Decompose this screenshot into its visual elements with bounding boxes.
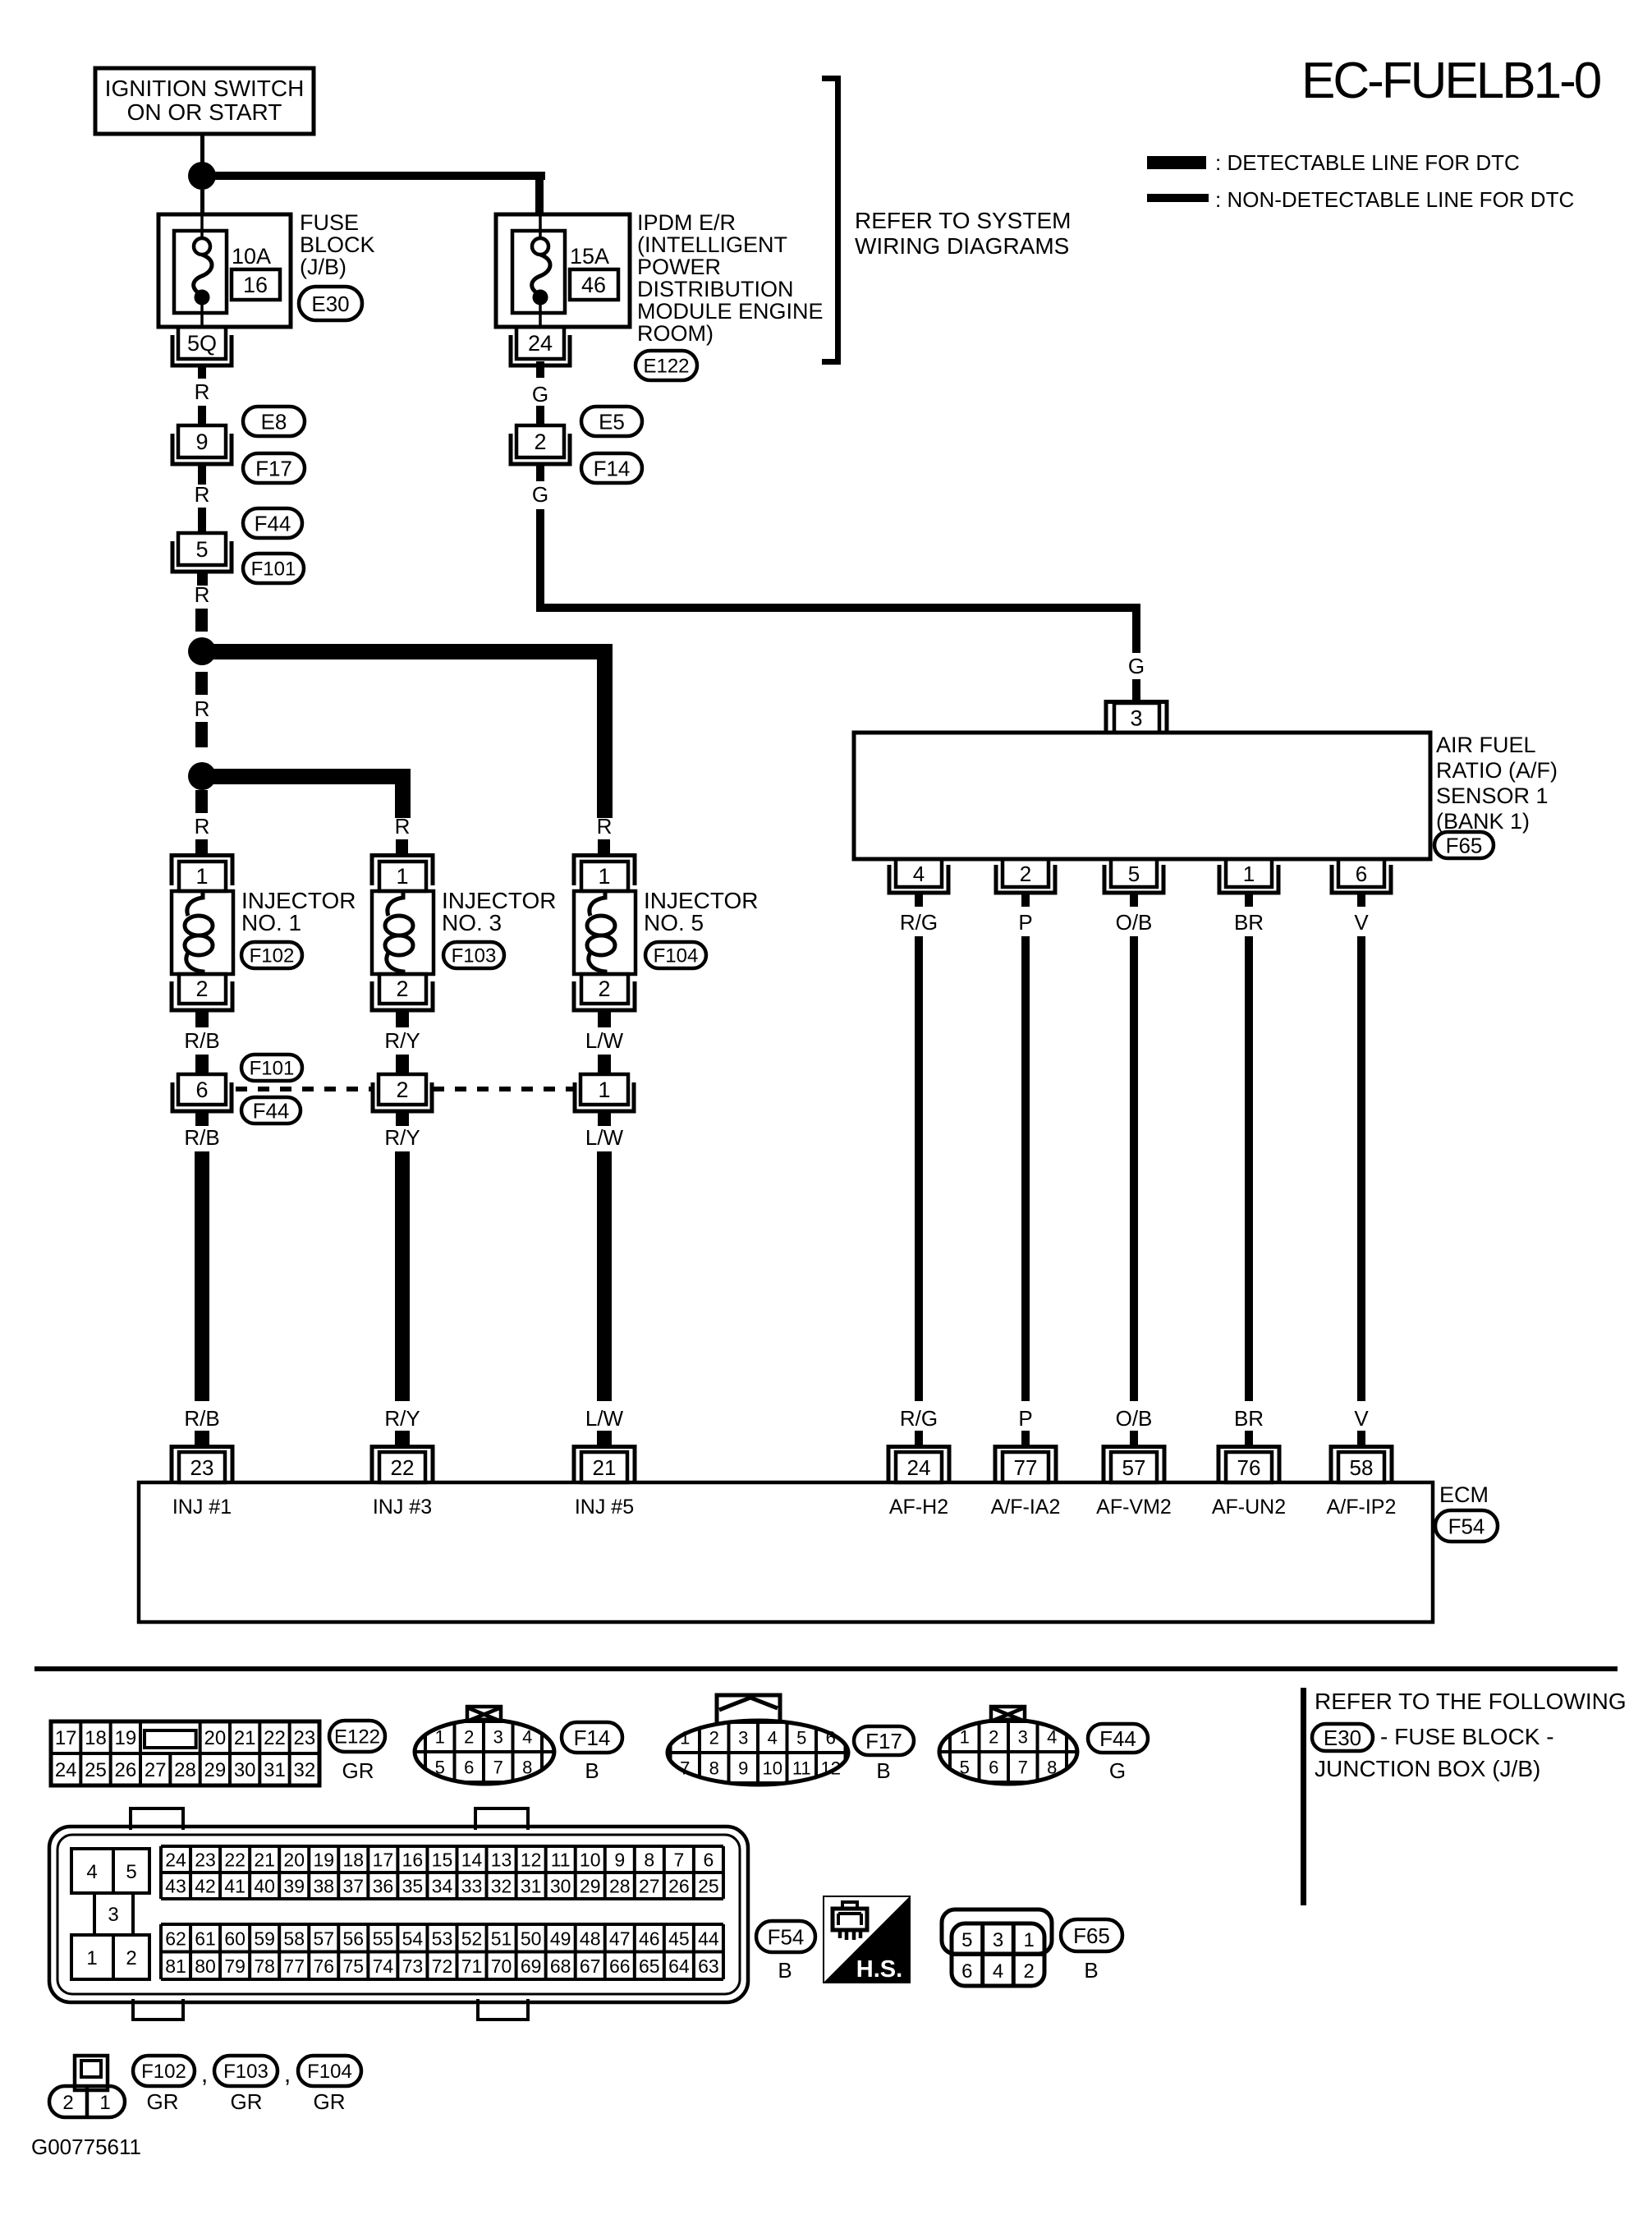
svg-text:2: 2 — [709, 1728, 719, 1749]
wire — [396, 1111, 409, 1126]
wire — [598, 1011, 611, 1027]
svg-text:3: 3 — [1130, 706, 1142, 731]
wire junction2 to injector3 — [212, 769, 411, 784]
wire G 24 to E5 — [536, 361, 544, 378]
svg-text:F103: F103 — [452, 945, 497, 967]
svg-text:ROOM): ROOM) — [637, 321, 714, 346]
svg-text:7: 7 — [673, 1850, 684, 1871]
junction node 2 — [188, 762, 216, 790]
svg-text:54: 54 — [402, 1928, 424, 1949]
svg-text:R/G: R/G — [900, 1406, 938, 1431]
svg-text:R: R — [195, 482, 210, 507]
svg-text:R/G: R/G — [900, 910, 938, 935]
wire — [395, 1431, 410, 1446]
svg-text:8: 8 — [709, 1758, 719, 1779]
bracket refer to system wiring diagrams — [822, 79, 1071, 362]
A/F sensor terminal 4 — [889, 859, 948, 893]
svg-text:H.S.: H.S. — [856, 1956, 902, 1983]
svg-text:15: 15 — [432, 1850, 453, 1871]
svg-text:AF-H2: AF-H2 — [889, 1496, 948, 1519]
svg-text:2: 2 — [126, 1947, 136, 1969]
svg-text:5: 5 — [961, 1929, 972, 1951]
svg-text:JUNCTION BOX (J/B): JUNCTION BOX (J/B) — [1315, 1756, 1540, 1781]
svg-text:31: 31 — [521, 1876, 542, 1897]
svg-text:48: 48 — [580, 1928, 601, 1949]
svg-text:66: 66 — [609, 1955, 631, 1977]
svg-text:G00775611: G00775611 — [31, 2135, 141, 2159]
svg-text:1: 1 — [598, 1078, 610, 1102]
connector F101 — [241, 1055, 302, 1081]
wire — [598, 1111, 611, 1126]
svg-text:6: 6 — [961, 1960, 972, 1983]
wire ignition to junction — [200, 134, 204, 163]
svg-text:55: 55 — [373, 1928, 394, 1949]
svg-text:42: 42 — [195, 1876, 216, 1897]
svg-text:72: 72 — [432, 1955, 453, 1977]
svg-text:2: 2 — [598, 977, 610, 1001]
svg-text:73: 73 — [402, 1955, 424, 1977]
svg-text:- FUSE BLOCK -: - FUSE BLOCK - — [1380, 1724, 1554, 1749]
H.S. mark — [824, 1896, 910, 1983]
svg-text:F101: F101 — [251, 558, 296, 581]
svg-text:6: 6 — [826, 1728, 836, 1749]
svg-text:F17: F17 — [255, 456, 292, 480]
separator line — [34, 1666, 1618, 1671]
svg-text:E30: E30 — [1324, 1726, 1361, 1750]
svg-text:49: 49 — [550, 1928, 571, 1949]
svg-text:70: 70 — [491, 1955, 512, 1977]
svg-text:L/W: L/W — [585, 1125, 624, 1150]
svg-text:52: 52 — [461, 1928, 483, 1949]
wire G long to A/F sensor — [536, 509, 544, 612]
svg-text:29: 29 — [204, 1759, 226, 1781]
wire — [195, 1011, 209, 1027]
wire R/G long to ECM — [915, 936, 923, 1401]
svg-text:SENSOR 1: SENSOR 1 — [1436, 784, 1549, 808]
svg-text:11: 11 — [792, 1758, 811, 1779]
wire R to injector1 — [195, 790, 208, 813]
svg-text:NO. 5: NO. 5 — [644, 910, 704, 935]
svg-text:5: 5 — [435, 1758, 445, 1778]
svg-text:12: 12 — [821, 1758, 841, 1779]
air fuel ratio sensor 1 box — [854, 733, 1430, 859]
svg-text:28: 28 — [609, 1876, 631, 1897]
svg-text:24: 24 — [55, 1759, 77, 1781]
connector F44 — [243, 508, 302, 538]
svg-text:69: 69 — [521, 1955, 542, 1977]
svg-text:63: 63 — [698, 1955, 719, 1977]
svg-text:8: 8 — [1047, 1758, 1057, 1778]
terminal 5Q — [172, 327, 232, 365]
wire — [1357, 1431, 1365, 1446]
svg-text:REFER TO THE FOLLOWING: REFER TO THE FOLLOWING — [1315, 1689, 1627, 1714]
svg-text:51: 51 — [491, 1928, 512, 1949]
wire R/B long to ECM — [195, 1151, 209, 1401]
svg-text:79: 79 — [224, 1955, 246, 1977]
connector F54 — [756, 1921, 815, 1952]
svg-text:77: 77 — [283, 1955, 305, 1977]
wire — [915, 1431, 923, 1446]
connector face F54 (ECM) — [49, 1808, 748, 2020]
connector F104 — [645, 942, 706, 968]
svg-text:5Q: 5Q — [187, 331, 217, 356]
svg-text:1: 1 — [960, 1727, 970, 1748]
wire O/B long to ECM — [1130, 936, 1138, 1401]
svg-text:FUSE: FUSE — [300, 210, 359, 235]
svg-text:40: 40 — [254, 1876, 275, 1897]
title EC-FUELB1-0 — [1301, 53, 1601, 109]
svg-text:53: 53 — [432, 1928, 453, 1949]
svg-text:E30: E30 — [311, 292, 349, 316]
connector F65 — [1434, 832, 1494, 858]
svg-text:AF-VM2: AF-VM2 — [1096, 1496, 1172, 1519]
svg-text:44: 44 — [698, 1928, 719, 1949]
svg-text:26: 26 — [114, 1759, 136, 1781]
svg-text:27: 27 — [145, 1759, 167, 1781]
svg-text:EC-FUELB1-0: EC-FUELB1-0 — [1301, 53, 1601, 109]
connector F103 — [443, 942, 504, 968]
svg-text:AIR FUEL: AIR FUEL — [1436, 733, 1536, 757]
connector F54 — [1435, 1510, 1498, 1542]
wire junction to IPDM — [212, 172, 545, 180]
svg-text:IPDM E/R: IPDM E/R — [637, 210, 736, 235]
svg-text:10: 10 — [580, 1850, 601, 1871]
wire — [195, 1431, 209, 1446]
svg-text:32: 32 — [491, 1876, 512, 1897]
svg-text:3: 3 — [493, 1727, 503, 1748]
svg-text:A/F-IA2: A/F-IA2 — [991, 1496, 1061, 1519]
svg-text:BR: BR — [1234, 910, 1264, 935]
wire — [915, 894, 923, 907]
svg-text:2: 2 — [464, 1727, 474, 1748]
svg-text:1: 1 — [1024, 1929, 1035, 1951]
svg-text:13: 13 — [491, 1850, 512, 1871]
wire R 5 to junction 1 — [197, 571, 208, 586]
svg-text:60: 60 — [224, 1928, 246, 1949]
svg-text:(J/B): (J/B) — [300, 255, 346, 279]
svg-text:43: 43 — [165, 1876, 186, 1897]
wire — [1245, 894, 1253, 907]
label FUSE BLOCK (J/B) — [300, 210, 375, 279]
label AIR FUEL RATIO (A/F) SENSOR 1 (BANK 1) — [1436, 733, 1558, 834]
svg-text:23: 23 — [293, 1727, 315, 1749]
A/F sensor terminal 6 — [1332, 859, 1391, 893]
svg-text:25: 25 — [85, 1759, 107, 1781]
svg-text:R: R — [195, 582, 210, 607]
ECM box — [139, 1482, 1433, 1622]
svg-text:F54: F54 — [1448, 1514, 1485, 1538]
svg-text:1: 1 — [1243, 862, 1255, 886]
connector E5/F14 terminal 2 — [511, 425, 570, 464]
svg-text:4: 4 — [993, 1960, 1003, 1983]
ECM terminal 77 — [995, 1447, 1056, 1483]
svg-text:22: 22 — [224, 1850, 246, 1871]
svg-text:G: G — [1109, 1758, 1126, 1783]
svg-text:F102: F102 — [250, 945, 295, 967]
svg-text:F102: F102 — [141, 2061, 186, 2083]
svg-text:F65: F65 — [1446, 833, 1483, 857]
svg-text:22: 22 — [264, 1727, 286, 1749]
svg-text:E122: E122 — [334, 1726, 380, 1749]
svg-text:F54: F54 — [768, 1924, 805, 1949]
svg-text:36: 36 — [373, 1876, 394, 1897]
svg-text:G: G — [532, 382, 548, 407]
A/F sensor terminal 1 — [1219, 859, 1278, 893]
svg-text:B: B — [1084, 1958, 1098, 1983]
svg-text:3: 3 — [108, 1904, 118, 1926]
svg-text:14: 14 — [461, 1850, 483, 1871]
svg-text:POWER: POWER — [637, 255, 721, 279]
svg-text:41: 41 — [224, 1876, 246, 1897]
svg-text:AF-UN2: AF-UN2 — [1212, 1496, 1286, 1519]
svg-text:57: 57 — [313, 1928, 334, 1949]
connector F101/F44 terminal 1 — [575, 1074, 634, 1111]
svg-text:30: 30 — [550, 1876, 571, 1897]
svg-text:R: R — [195, 814, 210, 839]
svg-text:1: 1 — [195, 864, 208, 889]
svg-text:R: R — [597, 814, 613, 839]
wire R junction1 to junction2 — [195, 672, 208, 695]
svg-text:17: 17 — [373, 1850, 394, 1871]
svg-text:INJ #3: INJ #3 — [373, 1496, 432, 1519]
svg-text:1: 1 — [396, 864, 408, 889]
svg-text:18: 18 — [343, 1850, 365, 1871]
svg-text:28: 28 — [174, 1759, 196, 1781]
svg-text:P: P — [1018, 1406, 1032, 1431]
wire — [1021, 1431, 1030, 1446]
wire — [1130, 894, 1138, 907]
svg-text:6: 6 — [989, 1758, 998, 1778]
svg-text:7: 7 — [1018, 1758, 1028, 1778]
IPDM E/R 15A fuse 46 — [496, 214, 630, 327]
svg-text:1: 1 — [99, 2092, 110, 2114]
svg-text:75: 75 — [343, 1955, 365, 1977]
svg-text:57: 57 — [1122, 1455, 1146, 1480]
svg-text:3: 3 — [738, 1728, 748, 1749]
wire — [598, 1055, 611, 1074]
svg-text:59: 59 — [254, 1928, 275, 1949]
connector F44 — [241, 1097, 301, 1124]
svg-text:1: 1 — [598, 864, 610, 889]
connector F101/F44 terminal 6 — [172, 1074, 232, 1111]
wire R/Y long to ECM — [395, 1151, 410, 1401]
svg-text:GR: GR — [231, 2089, 263, 2114]
svg-text:2: 2 — [396, 1078, 408, 1102]
svg-text:(BANK 1): (BANK 1) — [1436, 809, 1530, 834]
svg-text:12: 12 — [521, 1850, 542, 1871]
svg-text:58: 58 — [1350, 1455, 1374, 1480]
injector no. 3 — [372, 856, 434, 1011]
svg-text:45: 45 — [668, 1928, 690, 1949]
svg-text:1: 1 — [86, 1947, 97, 1969]
svg-text:NO. 3: NO. 3 — [442, 910, 502, 935]
svg-text:2: 2 — [195, 977, 208, 1001]
A/F sensor terminal 5 — [1104, 859, 1163, 893]
connector F17 — [243, 453, 305, 483]
wire — [396, 1055, 409, 1074]
svg-text:5: 5 — [1128, 862, 1140, 886]
svg-text:78: 78 — [254, 1955, 275, 1977]
wire R 5Q to E8 — [198, 364, 206, 379]
svg-text:30: 30 — [234, 1759, 256, 1781]
connector face F102/F103/F104 (2-pin) — [49, 2056, 125, 2117]
svg-text:: NON-DETECTABLE LINE FOR DTC: : NON-DETECTABLE LINE FOR DTC — [1215, 187, 1574, 212]
svg-text:27: 27 — [639, 1876, 660, 1897]
svg-text:20: 20 — [204, 1727, 226, 1749]
connector face F44 — [939, 1707, 1077, 1784]
svg-text:R/Y: R/Y — [384, 1406, 420, 1431]
svg-text:67: 67 — [580, 1955, 601, 1977]
ECM terminal 21 — [574, 1447, 635, 1483]
wire G down — [536, 465, 544, 481]
svg-text:IGNITION SWITCH: IGNITION SWITCH — [105, 76, 305, 101]
wire — [1130, 1431, 1138, 1446]
svg-text:23: 23 — [190, 1455, 214, 1480]
svg-text:4: 4 — [768, 1728, 778, 1749]
wire — [1245, 1431, 1253, 1446]
svg-text:65: 65 — [639, 1955, 660, 1977]
wire — [195, 1111, 209, 1126]
svg-text:39: 39 — [283, 1876, 305, 1897]
svg-text:56: 56 — [343, 1928, 365, 1949]
svg-text:25: 25 — [698, 1876, 719, 1897]
svg-text:22: 22 — [391, 1455, 415, 1480]
svg-text:5: 5 — [960, 1758, 970, 1778]
svg-text:76: 76 — [1237, 1455, 1261, 1480]
svg-text:21: 21 — [254, 1850, 275, 1871]
svg-text:F104: F104 — [307, 2061, 352, 2083]
svg-text:R/Y: R/Y — [384, 1125, 420, 1150]
svg-text:24: 24 — [907, 1455, 931, 1480]
svg-text:R/B: R/B — [184, 1406, 219, 1431]
svg-text:4: 4 — [522, 1727, 532, 1748]
svg-text:O/B: O/B — [1116, 1406, 1153, 1431]
svg-text:46: 46 — [639, 1928, 660, 1949]
svg-text:26: 26 — [668, 1876, 690, 1897]
ECM terminal 76 — [1218, 1447, 1279, 1483]
svg-text:O/B: O/B — [1116, 910, 1153, 935]
svg-text:RATIO (A/F): RATIO (A/F) — [1436, 758, 1558, 783]
svg-text:,: , — [201, 2061, 208, 2088]
junction node — [188, 162, 216, 190]
terminal 24 — [511, 327, 570, 365]
connector F17 — [854, 1726, 914, 1755]
svg-text:5: 5 — [796, 1728, 806, 1749]
label INJECTOR NO. 3 — [442, 888, 557, 935]
svg-text:INJ #1: INJ #1 — [172, 1496, 232, 1519]
label INJECTOR NO. 5 — [644, 888, 759, 935]
svg-text:9: 9 — [195, 430, 208, 454]
svg-text:F103: F103 — [223, 2061, 268, 2083]
svg-text:B: B — [876, 1758, 890, 1783]
svg-text:5: 5 — [126, 1861, 136, 1883]
svg-text:64: 64 — [668, 1955, 690, 1977]
svg-text:E8: E8 — [261, 409, 287, 434]
svg-text:ECM: ECM — [1439, 1482, 1489, 1507]
connector E8 — [243, 407, 305, 436]
svg-text:19: 19 — [114, 1727, 136, 1749]
label IPDM E/R — [637, 210, 824, 346]
svg-text:NO. 1: NO. 1 — [241, 910, 301, 935]
A/F sensor terminal 3 — [1106, 702, 1167, 733]
svg-text:7: 7 — [493, 1758, 503, 1778]
svg-text:F104: F104 — [654, 945, 699, 967]
svg-text:11: 11 — [551, 1850, 571, 1871]
svg-text:R/B: R/B — [184, 1125, 219, 1150]
svg-text:R: R — [195, 379, 210, 404]
svg-text:F44: F44 — [1099, 1726, 1136, 1751]
svg-text:71: 71 — [461, 1955, 483, 1977]
svg-text:16: 16 — [402, 1850, 424, 1871]
svg-text:2: 2 — [1020, 862, 1031, 886]
connector E122 — [636, 351, 697, 380]
wire V long to ECM — [1357, 936, 1365, 1401]
svg-text:BLOCK: BLOCK — [300, 232, 375, 257]
svg-text:R: R — [395, 814, 411, 839]
svg-text:38: 38 — [313, 1876, 334, 1897]
svg-text:GR: GR — [314, 2089, 346, 2114]
svg-text:5: 5 — [195, 537, 208, 562]
injector no. 5 — [574, 856, 636, 1011]
ECM terminal 58 — [1331, 1447, 1392, 1483]
ECM terminal 23 — [172, 1447, 232, 1483]
svg-text:R/B: R/B — [184, 1028, 219, 1053]
legend detectable line — [1147, 150, 1520, 175]
svg-text:23: 23 — [195, 1850, 216, 1871]
connector E5 — [581, 407, 642, 436]
svg-text:B: B — [585, 1758, 599, 1783]
svg-text:DISTRIBUTION: DISTRIBUTION — [637, 277, 794, 301]
connector E122 — [329, 1721, 385, 1752]
svg-text:F44: F44 — [253, 1098, 290, 1123]
legend non-detectable line — [1147, 187, 1574, 212]
svg-text:24: 24 — [528, 331, 553, 356]
svg-text:9: 9 — [614, 1850, 625, 1871]
svg-text:V: V — [1354, 1406, 1369, 1431]
svg-text:F65: F65 — [1073, 1923, 1110, 1948]
svg-text:50: 50 — [521, 1928, 542, 1949]
svg-text:INJ #5: INJ #5 — [575, 1496, 634, 1519]
svg-text:10A: 10A — [232, 244, 271, 269]
svg-text:3: 3 — [1018, 1727, 1028, 1748]
svg-text:BR: BR — [1234, 1406, 1264, 1431]
svg-text:MODULE ENGINE: MODULE ENGINE — [637, 299, 824, 324]
svg-text:62: 62 — [165, 1928, 186, 1949]
svg-text:16: 16 — [243, 273, 268, 297]
svg-text:WIRING DIAGRAMS: WIRING DIAGRAMS — [855, 233, 1069, 259]
connector F104 — [298, 2056, 361, 2086]
connector F101 — [243, 554, 304, 583]
connector F102 — [241, 942, 302, 968]
svg-text:31: 31 — [264, 1759, 286, 1781]
svg-text:ON OR START: ON OR START — [127, 99, 282, 125]
svg-text:2: 2 — [62, 2092, 73, 2114]
svg-text:E122: E122 — [643, 356, 689, 378]
svg-text:20: 20 — [283, 1850, 305, 1871]
connector E30 — [299, 287, 362, 320]
connector F101/F44 terminal 2 — [373, 1074, 432, 1111]
svg-text:2: 2 — [1024, 1960, 1035, 1983]
connector F44 — [1088, 1724, 1148, 1753]
svg-text:2: 2 — [989, 1727, 998, 1748]
svg-text:17: 17 — [55, 1727, 77, 1749]
svg-text:15A: 15A — [570, 244, 609, 269]
svg-text:1: 1 — [435, 1727, 445, 1748]
svg-text:21: 21 — [593, 1455, 617, 1480]
svg-text:G: G — [1128, 654, 1145, 678]
svg-text:76: 76 — [313, 1955, 334, 1977]
connector face F17 — [668, 1695, 848, 1785]
